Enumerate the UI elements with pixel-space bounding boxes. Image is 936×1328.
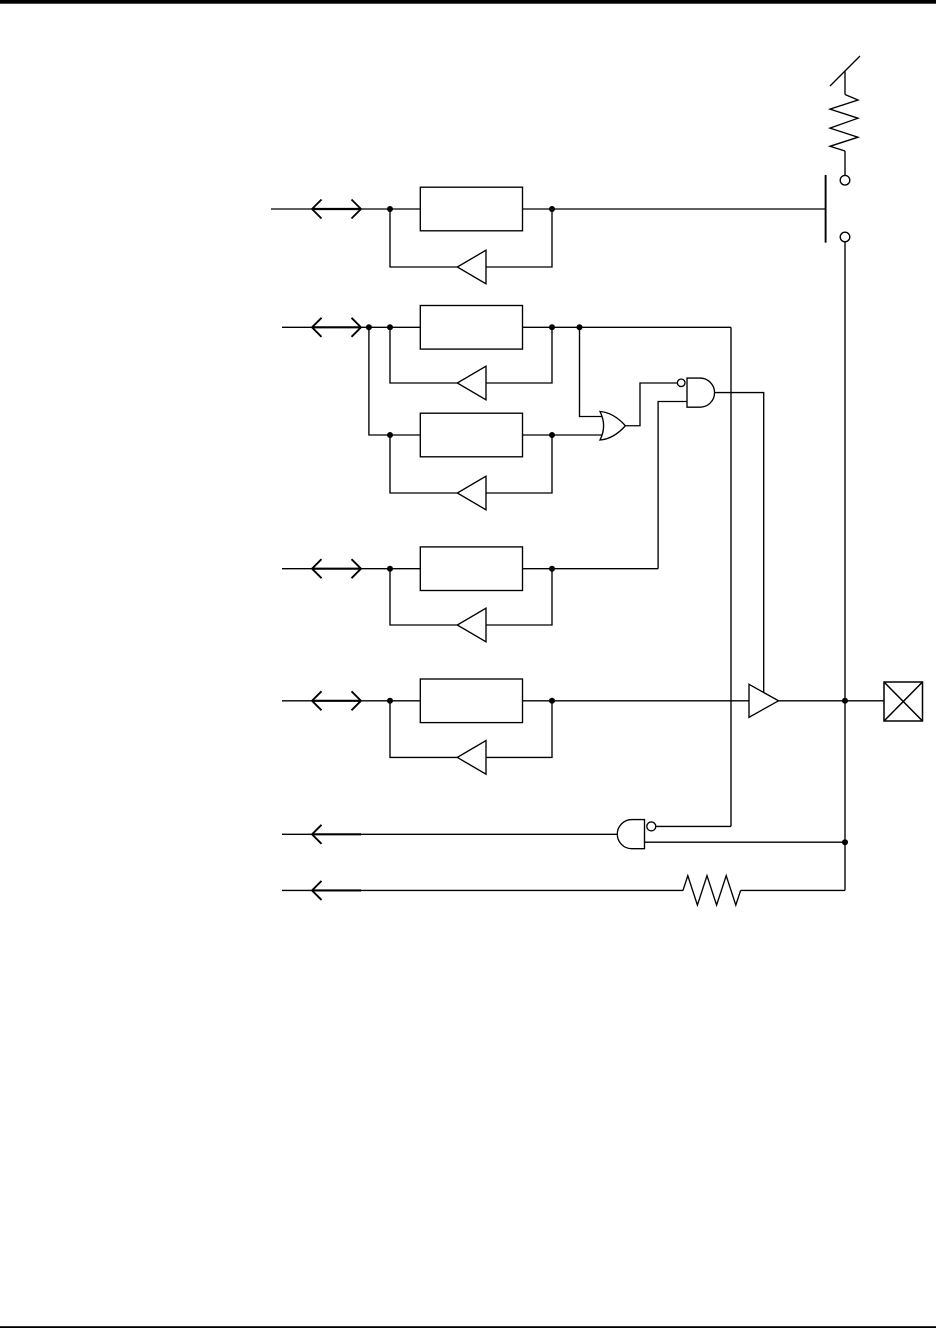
- junction dot row1 input: [387, 206, 393, 212]
- inverter G1: [457, 250, 486, 284]
- junction dot row3 input: [387, 566, 393, 572]
- wire B1 output: [523, 208, 553, 210]
- vertical wire row2a to U4 inverted input: [730, 327, 732, 826]
- wire arrow3 to box B3: [361, 568, 420, 570]
- wire arrow1 to box B1: [361, 208, 420, 210]
- bidirectional arrow port3: [312, 559, 361, 578]
- bidirectional arrow port1: [312, 200, 361, 219]
- wire B2a output to corner: [523, 326, 732, 328]
- transistor Q1 source terminal: [840, 232, 850, 242]
- wire arrow2 to box B2a: [361, 326, 420, 328]
- feedback wire row3 return: [486, 569, 552, 625]
- feedback wire row1 return: [486, 209, 552, 267]
- wire row1 to Q1 gate: [552, 208, 826, 210]
- junction dot row4 output: [549, 698, 555, 704]
- feedback wire row2a return: [486, 327, 552, 383]
- nand U2 (AND body): [687, 378, 715, 407]
- driver box B1: [420, 187, 522, 231]
- junction dot row3 output: [549, 566, 555, 572]
- and-gate U4 input bubble: [647, 822, 656, 831]
- or-gate U1: [600, 412, 625, 441]
- wire B2b output to OR input: [523, 434, 605, 436]
- wire row3 up to NAND bottom input: [658, 402, 687, 569]
- tri-state buffer U3: [749, 684, 779, 717]
- wire OR output to NAND bubble: [625, 383, 677, 426]
- wire port3 left: [282, 568, 312, 570]
- resistor R2 series: [683, 876, 741, 905]
- feedback wire row4 down: [390, 701, 457, 758]
- wire buffer output to pad: [779, 700, 885, 702]
- driver box B3: [420, 547, 522, 591]
- power rail slash: [830, 56, 860, 86]
- driver box B2a: [420, 306, 522, 350]
- driver box B4: [420, 679, 522, 723]
- wire bubble to vertical x731: [655, 825, 731, 827]
- junction dot row2b output: [549, 432, 555, 438]
- wire B3 output: [523, 568, 659, 570]
- driver box B2b: [420, 413, 522, 457]
- junction dot row2a OR tap: [577, 324, 583, 330]
- feedback wire row4 return: [486, 701, 552, 758]
- wire arrow6 to resistor R2: [361, 889, 683, 891]
- inverter G2b: [457, 476, 486, 510]
- bidirectional arrow port2: [312, 318, 361, 337]
- transistor Q1 gate bar: [825, 175, 827, 243]
- wire port1 left: [271, 208, 312, 210]
- junction dot row4 input: [387, 698, 393, 704]
- wire port2 left: [282, 326, 312, 328]
- junction dot row2a input: [387, 324, 393, 330]
- inverter G4: [457, 741, 486, 775]
- wire B4 output to buffer: [523, 700, 750, 702]
- bidirectional arrow port4: [312, 691, 361, 710]
- resistor R1 pull-up: [830, 95, 858, 152]
- junction dot row2b input: [387, 432, 393, 438]
- and-gate U4 left-facing: [617, 820, 644, 849]
- junction dot rail AND input: [842, 839, 848, 845]
- inverter G2a: [457, 366, 486, 400]
- feedback wire row2b return: [486, 435, 552, 493]
- left arrow port5: [312, 825, 361, 844]
- transistor Q1 drain terminal: [840, 175, 850, 185]
- wire R2 to rail: [741, 889, 845, 891]
- feedback wire row1 down: [390, 209, 457, 267]
- feedback wire row2b down: [390, 435, 457, 493]
- wire R1 to Q1 drain: [844, 151, 846, 176]
- feedback wire row3 down: [390, 569, 457, 625]
- wire port4 left: [282, 700, 312, 702]
- wire AND output to arrow5: [361, 833, 617, 835]
- wire row2 tap down to B2b: [369, 327, 420, 435]
- junction dot row1 output: [549, 206, 555, 212]
- junction dot row2 tap: [366, 324, 372, 330]
- wire U4 bottom input to rail: [645, 841, 846, 843]
- wire port5 left: [282, 833, 312, 835]
- junction dot rail row4: [842, 698, 848, 704]
- vertical rail Q1 source down: [844, 242, 846, 891]
- wire NAND output down to tri-state enable: [715, 393, 764, 693]
- wire arrow4 to box B4: [361, 700, 420, 702]
- wire slash to R1: [844, 71, 846, 95]
- left arrow port6: [312, 881, 361, 900]
- nand U2 input bubble: [677, 379, 685, 387]
- inverter G3: [457, 608, 486, 642]
- wire row2a down to OR top input: [580, 327, 605, 416]
- feedback wire row2a down: [390, 327, 457, 383]
- wire port6 left: [282, 889, 312, 891]
- junction dot row2a output: [549, 324, 555, 330]
- pad crossed box: [884, 682, 923, 721]
